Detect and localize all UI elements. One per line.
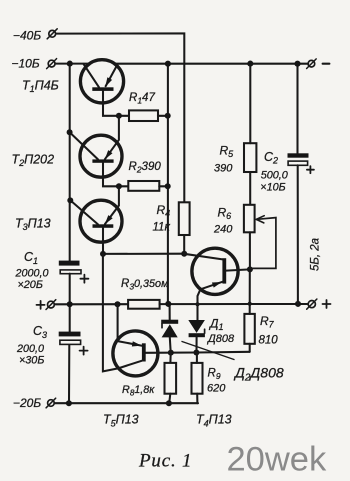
transistor T2 base lead — [103, 163, 128, 187]
node D2 chain on node line — [168, 350, 174, 356]
transistor T3 emitter arrow — [105, 215, 113, 224]
resistor R7 body — [244, 314, 254, 344]
node rail collector bus — [67, 61, 73, 67]
resistor R6 body — [244, 205, 255, 233]
rheostat R6 wiper arrow — [250, 218, 276, 269]
svg-text:R5: R5 — [220, 144, 235, 160]
transistor T3 base lead — [103, 228, 184, 254]
svg-text:−10Б: −10Б — [12, 57, 40, 71]
resistor R4 body — [179, 202, 190, 235]
wire C2 bottom lead — [297, 165, 299, 304]
capacitor C2 plus sign — [307, 169, 314, 171]
svg-text:Рис. 1: Рис. 1 — [138, 450, 192, 471]
terminal -40V input — [49, 30, 56, 37]
diode D1 cathode bar with zener tick — [189, 333, 205, 337]
transistor T1 collector line — [84, 64, 100, 87]
transistor T4 emitter line with arrow — [200, 282, 222, 290]
transistor T5 circle — [113, 331, 158, 376]
svg-text:390: 390 — [214, 163, 233, 175]
svg-text:С3: С3 — [33, 324, 47, 340]
wire D2 bottom lead — [169, 337, 172, 352]
svg-text:2000,0: 2000,0 — [15, 268, 49, 280]
transistor T3 collector line — [70, 200, 98, 224]
transistor T1 circle — [80, 60, 123, 103]
transistor T3 circle — [80, 200, 122, 242]
capacitor C2 plates — [288, 153, 309, 157]
transistor T4 circle — [192, 248, 238, 294]
transistor T4 base lead — [226, 269, 250, 270]
wire R7 bottom lead — [249, 344, 251, 352]
node bus on -10V rail — [165, 61, 171, 67]
svg-text:500,0: 500,0 — [261, 169, 288, 181]
wire D1 to node — [195, 337, 197, 352]
wire -10V rail left segment — [56, 63, 89, 65]
transistor T4 base bar — [222, 258, 226, 283]
svg-text:R81,8к: R81,8к — [122, 384, 155, 397]
wire -40V rail to R4 — [56, 33, 184, 202]
node C2 bottom on output line — [295, 301, 301, 307]
wire T2 emitter riser — [105, 116, 119, 159]
svg-text:Д808: Д808 — [206, 333, 235, 345]
svg-text:R6: R6 — [218, 206, 232, 222]
svg-text:R30,35ом: R30,35ом — [121, 278, 169, 292]
transistor T5 base bar — [142, 343, 146, 361]
capacitor C3 plates — [59, 332, 81, 337]
wire T5 emitter riser — [118, 304, 142, 345]
transistor T5 collector line — [103, 254, 142, 372]
transistor T2 emitter arrow — [105, 150, 113, 159]
svg-text:×30Б: ×30Б — [19, 355, 44, 367]
wire collector bus lower C1 to C3 — [69, 274, 71, 332]
svg-text:R147: R147 — [129, 92, 155, 106]
node T3 collector on bus — [67, 197, 73, 203]
svg-text:240: 240 — [213, 223, 233, 235]
wire R8 bottom lead — [169, 394, 170, 404]
svg-text:×10Б: ×10Б — [260, 181, 285, 193]
svg-text:Т3П13: Т3П13 — [15, 217, 51, 233]
wire node line T5 base to R7 — [146, 352, 250, 353]
diode D2 triangle — [162, 324, 178, 337]
transistor T1 emitter line with arrow — [106, 64, 118, 86]
node T1 base / T2 emitter — [116, 113, 122, 119]
svg-text:Т1П4Б: Т1П4Б — [22, 79, 59, 95]
svg-text:620: 620 — [207, 383, 226, 395]
node bus bottom / D2 top — [165, 301, 171, 307]
wire R5 top lead — [249, 64, 251, 144]
svg-text:810: 810 — [259, 334, 279, 346]
wire output line left of R3 — [55, 303, 129, 305]
svg-text:С1: С1 — [24, 250, 38, 266]
svg-text:11к: 11к — [153, 222, 171, 234]
svg-text:Д2Д808: Д2Д808 — [233, 365, 284, 384]
wire output line right of R3 — [160, 303, 308, 305]
node R4 bottom / T4 collector — [181, 251, 187, 257]
diode D2 cathode bar with zener tick — [161, 320, 178, 324]
wire R5 to R6 — [249, 172, 251, 205]
capacitor C1 plus sign — [80, 278, 88, 280]
node T4 base / R6 bottom — [247, 266, 253, 272]
node C2 on -10V rail — [294, 61, 300, 67]
leader line to D2 label — [182, 342, 234, 360]
transistor T1 base bar — [92, 87, 113, 91]
transistor T4 collector line — [184, 254, 222, 260]
svg-text:×20Б: ×20Б — [18, 279, 43, 291]
capacitor C1 plates — [59, 261, 80, 266]
svg-text:R7: R7 — [260, 314, 275, 330]
node R7 on output line (small) — [248, 302, 252, 306]
node T2 collector on bus — [67, 129, 73, 135]
wire T4 emitter down to D1 — [198, 289, 201, 320]
transistor T2 base bar — [92, 159, 113, 162]
transistor T2 collector line — [70, 132, 98, 159]
resistor R9 body — [192, 363, 203, 394]
terminal plus output left — [48, 301, 55, 308]
wire D2 top lead — [169, 304, 171, 320]
resistor R5 body — [244, 143, 256, 172]
wire R7 top lead — [249, 269, 251, 314]
wire T3 emitter riser — [105, 186, 119, 224]
svg-text:Т4П13: Т4П13 — [196, 413, 232, 429]
wire R6 bottom lead — [249, 232, 251, 269]
resistor R2 body — [128, 181, 159, 191]
transistor T1 base lead — [103, 91, 129, 116]
wire R2 right lead — [159, 185, 168, 187]
resistor R1 body — [129, 110, 158, 121]
wire R4 bottom lead — [183, 235, 185, 254]
transistor T3 base bar — [93, 224, 114, 228]
diode D1 triangle — [188, 320, 205, 333]
svg-text:R2390: R2390 — [129, 161, 162, 175]
transistor T5 emitter arrow — [132, 341, 142, 346]
wire R9 top lead — [196, 353, 198, 363]
wire R1 right lead — [158, 115, 168, 117]
wire -20V rail — [55, 402, 198, 404]
svg-text:−40Б: −40Б — [13, 28, 41, 42]
wire D2 node to R8 — [169, 353, 171, 363]
svg-text:200,0: 200,0 — [16, 343, 44, 355]
svg-text:Т2П202: Т2П202 — [12, 153, 55, 169]
node T2 base / T3 emitter — [116, 183, 122, 189]
svg-text:R9: R9 — [208, 367, 221, 381]
node R1 right on bus — [165, 113, 171, 119]
terminal -10V input — [48, 60, 55, 67]
wire -10V rail right segment — [114, 63, 308, 65]
node R5 on -10V rail — [247, 61, 253, 67]
svg-text:С2: С2 — [264, 150, 278, 166]
node D1 / R9 / T5 base — [193, 350, 199, 356]
svg-text:20wek: 20wek — [227, 441, 327, 479]
node T5 collector on output line — [114, 301, 120, 307]
wire C2 top lead — [296, 64, 298, 154]
svg-text:5Б, 2а: 5Б, 2а — [310, 238, 322, 271]
transistor T2 circle — [80, 135, 122, 177]
wire R9 bottom lead — [196, 394, 198, 404]
terminal minus output right — [308, 60, 315, 67]
terminal plus output right — [308, 301, 315, 308]
wire collector bus x=69.6 upper — [69, 64, 71, 261]
node R8 on -20V rail — [166, 400, 172, 406]
node R2 right on bus — [165, 183, 171, 189]
svg-text:Т5П13: Т5П13 — [103, 413, 139, 429]
svg-text:−20Б: −20Б — [13, 396, 41, 410]
terminal -20V input — [48, 400, 55, 407]
svg-text:Д1: Д1 — [208, 317, 223, 333]
node T3 base junction — [100, 251, 106, 257]
node C3 on -20V rail — [66, 400, 72, 406]
capacitor C3 plus sign — [80, 350, 88, 352]
node T4 emitter on output line (small) — [196, 302, 200, 306]
resistor R8 body — [165, 363, 177, 394]
wire emitter bus x=167.9 — [167, 64, 169, 304]
resistor R3 body — [128, 300, 160, 309]
node C1 bus on output line — [67, 301, 73, 307]
wire C3 to -20V rail — [68, 345, 70, 403]
